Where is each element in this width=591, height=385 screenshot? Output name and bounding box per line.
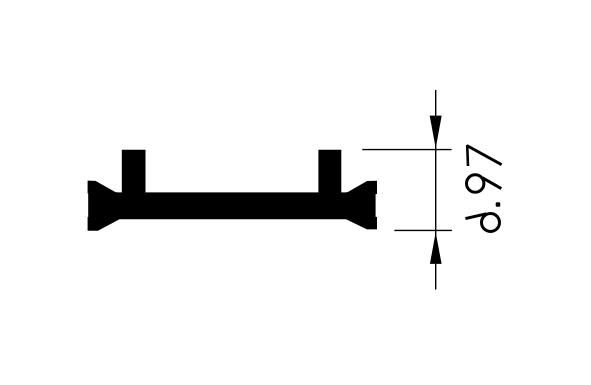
extension line bottom — [394, 229, 452, 231]
extension line top — [362, 149, 451, 151]
dimension text 6.97 digit 7 — [467, 145, 502, 166]
extrusion profile cross-section (filled) — [88, 150, 377, 231]
dimension text 6.97 digit 9 — [467, 175, 502, 192]
arrowhead bottom (points up) — [430, 232, 442, 264]
dimension text 6.97 decimal point — [496, 202, 501, 207]
dimension line (vertical) — [435, 90, 437, 290]
dimension text 6.97 digit 6 — [465, 214, 499, 232]
arrowhead top (points down) — [430, 116, 442, 149]
